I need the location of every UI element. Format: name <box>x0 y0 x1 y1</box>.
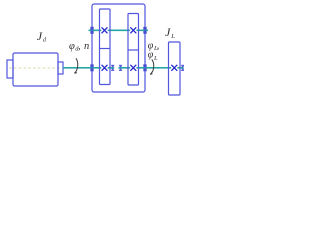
svg-text:n: n <box>84 41 89 52</box>
svg-text:φ: φ <box>148 50 154 61</box>
svg-text:,: , <box>78 41 81 52</box>
svg-text:d: d <box>43 38 47 44</box>
svg-text:L: L <box>170 33 175 40</box>
svg-text:J: J <box>165 25 171 39</box>
svg-text:J: J <box>37 29 43 43</box>
svg-text:L: L <box>153 55 158 62</box>
svg-text:,: , <box>157 41 160 52</box>
svg-text:φ: φ <box>69 41 75 52</box>
